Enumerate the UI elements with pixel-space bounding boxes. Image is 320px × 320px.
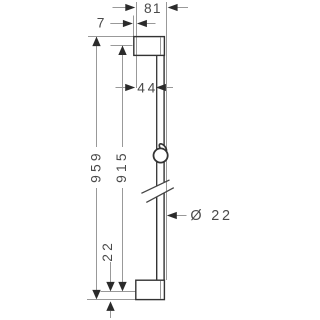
svg-text:22: 22 [100,240,115,262]
svg-text:22: 22 [211,208,233,224]
svg-text:7: 7 [97,16,105,31]
svg-text:44: 44 [137,81,158,96]
svg-text:81: 81 [144,1,162,16]
svg-text:959: 959 [88,150,103,183]
svg-text:Ø: Ø [190,208,201,224]
svg-text:915: 915 [114,150,129,183]
